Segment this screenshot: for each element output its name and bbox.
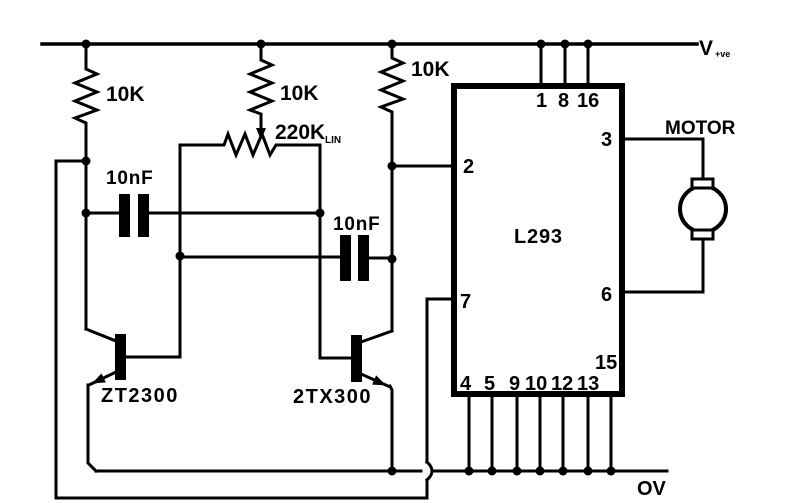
svg-text:ZT2300: ZT2300: [101, 385, 179, 407]
wire Q2 base from node: [320, 213, 351, 358]
wire pin 10: [539, 397, 542, 471]
svg-text:12: 12: [551, 373, 573, 395]
svg-text:220K: 220K: [275, 121, 325, 144]
wire Q1 emitter down to 0V rail: [88, 385, 96, 471]
node Q2 emitter on 0V rail: [388, 467, 397, 476]
wire V+ top rail: [42, 42, 697, 46]
potentiometer 220K LIN: [180, 134, 320, 155]
svg-text:10K: 10K: [280, 82, 319, 105]
wire pin 9: [516, 397, 519, 471]
wire pin 8: [564, 44, 567, 83]
svg-text:4: 4: [460, 373, 472, 395]
wire pin 3 to motor: [625, 139, 703, 179]
wire pin 4: [468, 397, 471, 471]
svg-text:2: 2: [463, 156, 474, 178]
wire pin 6 to motor: [625, 239, 703, 292]
svg-text:9: 9: [509, 373, 520, 395]
svg-text:6: 6: [601, 284, 612, 306]
svg-text:2TX300: 2TX300: [293, 386, 372, 408]
node pin4 on 0V: [465, 467, 474, 476]
node pin12 on 0V: [559, 467, 568, 476]
wire pin 7: [427, 299, 451, 462]
wire hop over 0V rail: [427, 462, 432, 480]
svg-text:L293: L293: [514, 226, 563, 248]
resistor R3 10K: [381, 44, 403, 166]
node 220K-right / C1-right / Q2 base: [316, 209, 325, 218]
wire pin 16: [587, 44, 590, 83]
svg-text:16: 16: [577, 90, 599, 112]
svg-text:10K: 10K: [106, 83, 145, 106]
wire 220K left lead down: [179, 145, 182, 256]
wire pin 7 down to lower rail: [426, 480, 429, 498]
wire Q2 emitter down to 0V rail: [390, 386, 392, 471]
wire node A left: [56, 161, 86, 498]
node V+ junction R1: [82, 40, 91, 49]
wire 0V rail: [96, 470, 421, 473]
node A (R1 / left bypass): [82, 157, 91, 166]
svg-text:MOTOR: MOTOR: [665, 118, 736, 139]
IC U1 L293 body: [454, 86, 622, 394]
wire C2 right to node: [369, 257, 392, 260]
svg-text:5: 5: [484, 373, 495, 395]
node B (R3 / pin2 / Q2 collector): [388, 162, 397, 171]
node pin5 on 0V: [488, 467, 497, 476]
node C2 right junction: [388, 255, 397, 264]
node pin9 on 0V: [513, 467, 522, 476]
node pin15 on 0V: [607, 467, 616, 476]
wire Q1 base from node: [126, 256, 180, 357]
svg-text:10nF: 10nF: [106, 168, 154, 189]
wire pin 15: [610, 397, 613, 471]
svg-text:LIN: LIN: [325, 135, 341, 146]
resistor R2 10K: [250, 44, 272, 131]
wire 220K right lead down: [319, 145, 322, 213]
svg-text:15: 15: [595, 352, 617, 374]
svg-text:+ve: +ve: [715, 49, 730, 59]
node 220K-left / C2-left / Q1 base: [176, 252, 185, 261]
wire C2 right node to Q2 collector: [391, 259, 394, 331]
node V+ junction pin1: [537, 40, 546, 49]
node V+ junction pin16: [584, 40, 593, 49]
wire lower return rail: [56, 497, 427, 500]
node V+ junction R3: [388, 40, 397, 49]
wire node B down to C2 right: [391, 166, 394, 259]
svg-text:10nF: 10nF: [333, 214, 381, 235]
node pin10 on 0V: [536, 467, 545, 476]
wire pin 12: [562, 397, 565, 471]
node V+ junction pin8: [561, 40, 570, 49]
node V+ junction R2: [257, 40, 266, 49]
svg-text:7: 7: [460, 291, 471, 313]
capacitor C2 10nF: [180, 256, 340, 259]
motor M1: [680, 186, 726, 232]
wire pin2: [392, 165, 451, 168]
wire pin 1: [540, 44, 543, 83]
wire pin 5: [491, 397, 494, 471]
svg-text:10K: 10K: [411, 58, 450, 81]
svg-text:10: 10: [525, 373, 547, 395]
svg-text:1: 1: [536, 90, 547, 112]
node C1 left junction: [82, 209, 91, 218]
transistor Q1 ZT2300: [115, 334, 126, 380]
svg-text:13: 13: [577, 373, 599, 395]
resistor R1 10K: [75, 44, 97, 161]
svg-text:8: 8: [558, 90, 569, 112]
wire C1 right to node: [149, 212, 320, 215]
node pin13 on 0V: [584, 467, 593, 476]
wire R1 bottom to C1 node: [85, 161, 88, 213]
svg-text:OV: OV: [637, 478, 667, 500]
wire pin 13: [587, 397, 590, 471]
capacitor C1 10nF: [86, 212, 119, 215]
wiper arrow of 220K pot: [256, 128, 266, 140]
svg-text:3: 3: [601, 129, 612, 151]
transistor Q2 2TX300: [351, 335, 362, 382]
svg-text:V: V: [699, 37, 713, 60]
